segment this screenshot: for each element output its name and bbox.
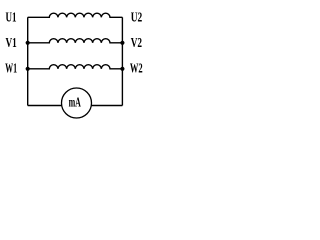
bottom wire right segment xyxy=(91,105,122,107)
milliammeter mA xyxy=(62,88,92,118)
bottom wire left segment xyxy=(28,105,62,107)
junction dot W1 xyxy=(26,67,30,71)
winding U1-U2 (row 1 wire + coil) xyxy=(28,13,123,17)
winding V1-V2 (row 2 wire + coil) xyxy=(28,39,123,43)
junction dot V1 xyxy=(26,41,30,45)
svg-text:mA: mA xyxy=(69,95,81,110)
svg-text:U2: U2 xyxy=(131,10,143,25)
svg-text:V1: V1 xyxy=(6,35,17,50)
svg-text:U1: U1 xyxy=(6,10,17,25)
winding W1-W2 (row 3 wire + coil) xyxy=(28,65,123,69)
junction dot W2 xyxy=(120,67,124,71)
svg-text:W2: W2 xyxy=(130,61,143,76)
svg-text:V2: V2 xyxy=(131,35,142,50)
left bus wire xyxy=(27,17,29,105)
right bus wire xyxy=(121,17,123,105)
svg-text:W1: W1 xyxy=(5,61,17,76)
junction dot V2 xyxy=(120,41,124,45)
